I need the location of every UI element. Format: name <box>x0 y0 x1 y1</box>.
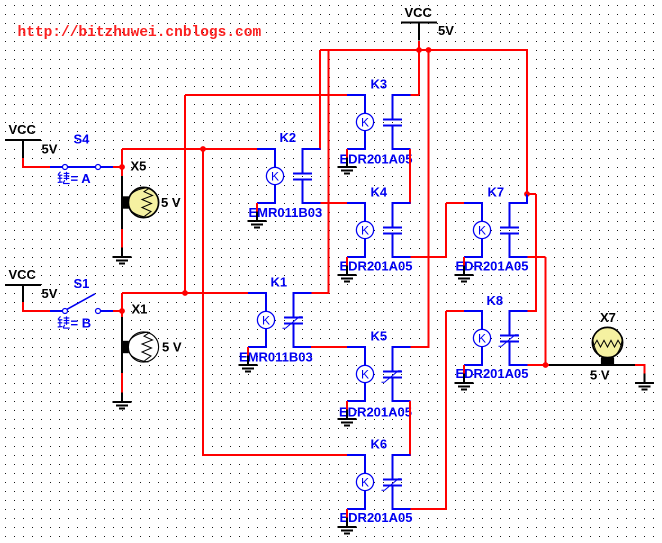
lamp X1 leads <box>121 311 123 394</box>
svg-text:EMR011B03: EMR011B03 <box>249 205 323 220</box>
svg-text:EDR201A05: EDR201A05 <box>456 259 529 274</box>
label EDR201A05 of K8 <box>456 366 529 381</box>
relay coil K6 with contact <box>347 454 411 510</box>
ground under K6 <box>337 518 356 534</box>
label K8 <box>487 293 504 308</box>
svg-text:K: K <box>478 331 486 345</box>
wire rail to K5 top-right <box>411 51 429 348</box>
wire node X1 up to relay K3 <box>185 95 347 293</box>
svg-text:K8: K8 <box>487 293 504 308</box>
switch S4 <box>50 132 113 170</box>
svg-text:X7: X7 <box>600 310 616 325</box>
svg-text:K6: K6 <box>371 437 388 452</box>
wire node X1 to relay K1 contact <box>122 292 248 294</box>
ground under K8 <box>454 374 473 390</box>
wire K7 bottom-left to ground <box>463 257 465 267</box>
lamp X5 <box>123 159 181 218</box>
wire K7 bottom-right to lamp node <box>528 257 546 365</box>
svg-text:K3: K3 <box>371 77 388 92</box>
lamp X5 leads <box>121 167 123 249</box>
wire K2 bottom-right to K4 top-left <box>321 202 348 204</box>
svg-text:5V: 5V <box>42 142 58 157</box>
ground under K5 <box>337 410 356 426</box>
relay coil K1 with contact <box>248 292 312 348</box>
label EDR201A05 of K4 <box>340 259 413 274</box>
wire rail to K2 top-right <box>311 50 320 150</box>
label EDR201A05 of K7 <box>456 259 529 274</box>
wire node X1 riser <box>121 293 123 311</box>
svg-text:EDR201A05: EDR201A05 <box>340 510 413 525</box>
wire K5 bottom-left to ground <box>346 401 348 411</box>
svg-text:5 V: 5 V <box>161 195 181 210</box>
svg-text:= B: = B <box>71 316 92 331</box>
svg-text:K: K <box>262 313 270 327</box>
label key A <box>58 171 92 186</box>
label EDR201A05 of K5 <box>339 405 412 420</box>
svg-text:http://bitzhuwei.cnblogs.com: http://bitzhuwei.cnblogs.com <box>18 25 262 41</box>
junction node X1 branch <box>182 290 188 296</box>
wire K6 bottom-right to K8 top-left <box>411 311 465 510</box>
wire node X5 to relay K2 coil <box>122 148 257 150</box>
wire S4 to node X5 <box>113 166 122 168</box>
svg-text:VCC: VCC <box>9 267 37 282</box>
junction VCC rail at stub <box>416 47 422 53</box>
wire K8 bottom-left to ground <box>463 365 465 375</box>
label K3 <box>371 77 388 92</box>
wire to lamp X7 <box>546 365 646 375</box>
lamp X7 <box>590 310 623 383</box>
wire VCC rail <box>320 49 528 51</box>
svg-text:VCC: VCC <box>9 122 37 137</box>
relay coil K8 with contact <box>464 310 528 366</box>
junction node X5 <box>119 164 125 170</box>
label K4 <box>371 185 388 200</box>
ground under lamp X1 <box>112 393 131 409</box>
wire K3 bottom-left to ground <box>346 149 348 159</box>
ground under K2 <box>247 212 266 228</box>
wire junction to K8 plates <box>527 194 536 312</box>
ground under K3 <box>337 158 356 174</box>
relay coil K2 <box>257 148 321 204</box>
svg-text:K: K <box>361 223 369 237</box>
svg-text:K: K <box>361 115 369 129</box>
power VCC top <box>401 5 454 41</box>
wire K1 bottom-right to K5 top-left <box>311 346 347 348</box>
switch S1 <box>50 276 113 314</box>
wire K4 bottom-left to ground <box>346 257 348 267</box>
svg-text:X1: X1 <box>132 302 148 317</box>
svg-text:5V: 5V <box>438 23 454 38</box>
wire node X5 riser <box>121 149 123 167</box>
ground at lamp X7 <box>635 374 654 390</box>
ground under K7 <box>454 266 473 282</box>
watermark text <box>18 25 262 41</box>
ground under lamp X5 <box>112 248 131 264</box>
wire K1 bottom-left to ground <box>247 347 249 357</box>
svg-text:EMR011B03: EMR011B03 <box>239 350 313 365</box>
power VCC left upper <box>5 122 58 158</box>
svg-text:5V: 5V <box>42 286 58 301</box>
junction lamp X7 node <box>543 362 549 368</box>
svg-text:5 V: 5 V <box>162 340 182 355</box>
wire junction down to K7 plates <box>510 194 528 204</box>
wire S1 to node X1 <box>113 310 122 312</box>
svg-text:VCC: VCC <box>405 5 433 20</box>
relay coil K4 <box>347 202 411 258</box>
wire K4 bottom-right to K7 top-left <box>411 203 465 258</box>
wire node X5 down to relay K6 <box>203 149 347 456</box>
wire VCC upper to S4 <box>22 158 50 168</box>
label K5 <box>371 329 388 344</box>
label EDR201A05 of K3 <box>340 152 413 167</box>
ground under K1 <box>238 356 257 372</box>
svg-text:K7: K7 <box>488 185 505 200</box>
svg-text:K5: K5 <box>371 329 388 344</box>
svg-text:K2: K2 <box>280 130 297 145</box>
power VCC left lower <box>5 267 58 303</box>
svg-text:K: K <box>361 475 369 489</box>
lamp X1 <box>123 302 182 363</box>
junction node X5 branch <box>200 146 206 152</box>
relay coil K7 <box>464 202 528 258</box>
label key B <box>58 316 91 331</box>
label K2 <box>280 130 297 145</box>
svg-text:S4: S4 <box>74 132 91 147</box>
junction node X1 <box>119 308 125 314</box>
svg-text:S1: S1 <box>74 276 90 291</box>
svg-text:K1: K1 <box>271 275 288 290</box>
wire K2 bottom-left to ground <box>256 203 258 213</box>
junction K7 plate node <box>524 191 530 197</box>
svg-text:= A: = A <box>71 171 92 186</box>
label EDR201A05 of K6 <box>340 510 413 525</box>
relay coil K5 with contact <box>347 346 411 402</box>
label K7 <box>488 185 505 200</box>
wire rail to K3 top-right <box>411 51 420 95</box>
label K1 <box>271 275 288 290</box>
svg-text:EDR201A05: EDR201A05 <box>340 259 413 274</box>
relay coil K3 <box>347 94 411 150</box>
ground under K4 <box>337 266 356 282</box>
svg-text:5 V: 5 V <box>590 368 610 383</box>
wire rail to K1 contact top <box>311 50 329 294</box>
wire K3 bottom-right to K4 top-right <box>409 149 412 204</box>
wire K6 bottom-left to ground <box>346 509 348 519</box>
svg-text:X5: X5 <box>131 159 147 174</box>
svg-text:K4: K4 <box>371 185 388 200</box>
svg-text:K: K <box>271 169 279 183</box>
wire K5 bottom-right to K6 top-right <box>409 401 412 456</box>
wire VCC top stub <box>418 41 420 51</box>
svg-text:EDR201A05: EDR201A05 <box>340 152 413 167</box>
junction VCC rail branch <box>426 47 432 53</box>
svg-text:EDR201A05: EDR201A05 <box>339 405 412 420</box>
wire rail right to K7 <box>526 50 528 194</box>
svg-text:K: K <box>361 367 369 381</box>
wire VCC lower to S1 <box>22 302 50 312</box>
label K6 <box>371 437 388 452</box>
svg-text:EDR201A05: EDR201A05 <box>456 366 529 381</box>
label EMR011B03 of K1 <box>239 350 313 365</box>
svg-text:K: K <box>478 223 486 237</box>
wire K8 bottom-right to lamp node <box>528 364 546 366</box>
label EMR011B03 of K2 <box>249 205 323 220</box>
